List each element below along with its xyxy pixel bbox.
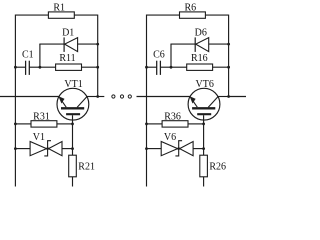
wire rail to R36 (stage2) (147, 123, 163, 125)
node collector junction (stage2) (227, 95, 230, 98)
resistor R11 (56, 64, 82, 70)
wire rail to diac (stage2) (147, 148, 162, 150)
node left rail junction V (stage2) (145, 147, 148, 150)
resistor R26 (200, 155, 208, 177)
diode D1 (64, 37, 78, 52)
wire top rail right segment (stage2) (205, 14, 228, 16)
wire junction to resistor (stage1) (40, 66, 56, 68)
wire left rail (stage2) (146, 15, 148, 187)
node left rail junction R3 (stage1) (14, 123, 17, 126)
svg-text:C6: C6 (153, 50, 165, 61)
wire diac to base lead (stage2) (193, 148, 204, 150)
wire top rail right segment (stage1) (74, 14, 97, 16)
diode D6 (195, 37, 209, 52)
wire collector to junction (stage2) (218, 96, 229, 98)
svg-text:D1: D1 (62, 28, 74, 39)
wire right vertical (stage2) (228, 15, 230, 97)
wire diac to base lead (stage1) (62, 148, 73, 150)
node resistor-right junction (stage1) (96, 66, 99, 69)
wire diode to right vertical (stage2) (209, 43, 229, 45)
wire emitter rail (stage1) (0, 96, 59, 98)
resistor R16 (187, 64, 213, 70)
wire rail to separator (98, 96, 105, 98)
wire diode anode lead (stage1) (39, 43, 64, 45)
wire rail to R31 (stage1) (15, 123, 31, 125)
svg-text:VT1: VT1 (64, 79, 82, 90)
node collector junction (stage1) (96, 95, 99, 98)
diac V6 (161, 141, 193, 156)
wire resistor to right vertical (stage1) (82, 66, 98, 68)
svg-text:R1: R1 (53, 2, 65, 13)
wire rail to capacitor (stage2) (147, 66, 157, 68)
svg-text:R21: R21 (78, 161, 95, 172)
resistor R31 (31, 121, 57, 127)
transistor VT6 (188, 88, 220, 120)
svg-text:R36: R36 (164, 112, 181, 123)
resistor R36 (162, 121, 188, 127)
node base-diac junction (stage2) (202, 147, 205, 150)
node base-R3 junction (stage1) (71, 123, 74, 126)
svg-text:D6: D6 (195, 28, 207, 39)
node left rail junction R3 (stage2) (145, 123, 148, 126)
wire rail to capacitor (stage1) (15, 66, 25, 68)
wire top rail left segment (stage2) (147, 14, 180, 16)
wire collector to junction (stage1) (87, 96, 98, 98)
node cap-resistor junction (stage1) (39, 66, 42, 69)
svg-text:R6: R6 (184, 2, 196, 13)
wire base lead down (stage1) (72, 115, 74, 155)
wire rail to right edge (229, 96, 246, 98)
wire emitter rail (stage2) (137, 96, 191, 98)
wire capacitor to junction (stage1) (29, 66, 40, 68)
svg-text:R31: R31 (33, 112, 50, 123)
resistor R21 (69, 155, 77, 177)
wire diode link vertical (stage2) (170, 44, 172, 67)
node diode-right junction (stage2) (227, 43, 230, 46)
wire resistor to right vertical (stage2) (213, 66, 229, 68)
capacitor C1 (26, 61, 30, 75)
wire R36 to base lead (stage2) (188, 123, 204, 125)
wire junction to resistor (stage2) (171, 66, 187, 68)
svg-text:V6: V6 (164, 132, 176, 143)
wire top rail left segment (stage1) (15, 14, 48, 16)
node cap-left junction (stage2) (145, 66, 148, 69)
wire capacitor to junction (stage2) (160, 66, 171, 68)
wire right vertical (stage1) (97, 15, 99, 97)
transistor VT1 (57, 88, 89, 120)
wire diode anode lead (stage2) (170, 43, 195, 45)
node separator dot 3 (128, 95, 131, 98)
node cap-left junction (stage1) (14, 66, 17, 69)
node base-R3 junction (stage2) (202, 123, 205, 126)
node base-diac junction (stage1) (71, 147, 74, 150)
node diode-right junction (stage1) (96, 43, 99, 46)
wire below R26 (stage2) (203, 177, 205, 187)
svg-text:R16: R16 (191, 53, 208, 64)
wire rail to diac (stage1) (15, 148, 30, 150)
svg-text:R26: R26 (209, 161, 226, 172)
node cap-resistor junction (stage2) (170, 66, 173, 69)
svg-text:V1: V1 (33, 132, 45, 143)
wire left rail (stage1) (14, 15, 16, 187)
svg-text:R11: R11 (59, 53, 75, 64)
wire diode link vertical (stage1) (39, 44, 41, 67)
wire diode to right vertical (stage1) (78, 43, 98, 45)
wire below R21 (stage1) (72, 177, 74, 187)
node separator dot 2 (120, 95, 123, 98)
node left rail junction V (stage1) (14, 147, 17, 150)
svg-text:VT6: VT6 (196, 79, 214, 90)
resistor R6 (180, 12, 206, 18)
capacitor C6 (157, 61, 161, 75)
svg-text:C1: C1 (22, 50, 34, 61)
resistor R1 (48, 12, 74, 18)
wire R31 to base lead (stage1) (57, 123, 73, 125)
diac V1 (30, 141, 62, 156)
node separator dot 1 (112, 95, 115, 98)
wire base lead down (stage2) (203, 115, 205, 155)
node resistor-right junction (stage2) (227, 66, 230, 69)
